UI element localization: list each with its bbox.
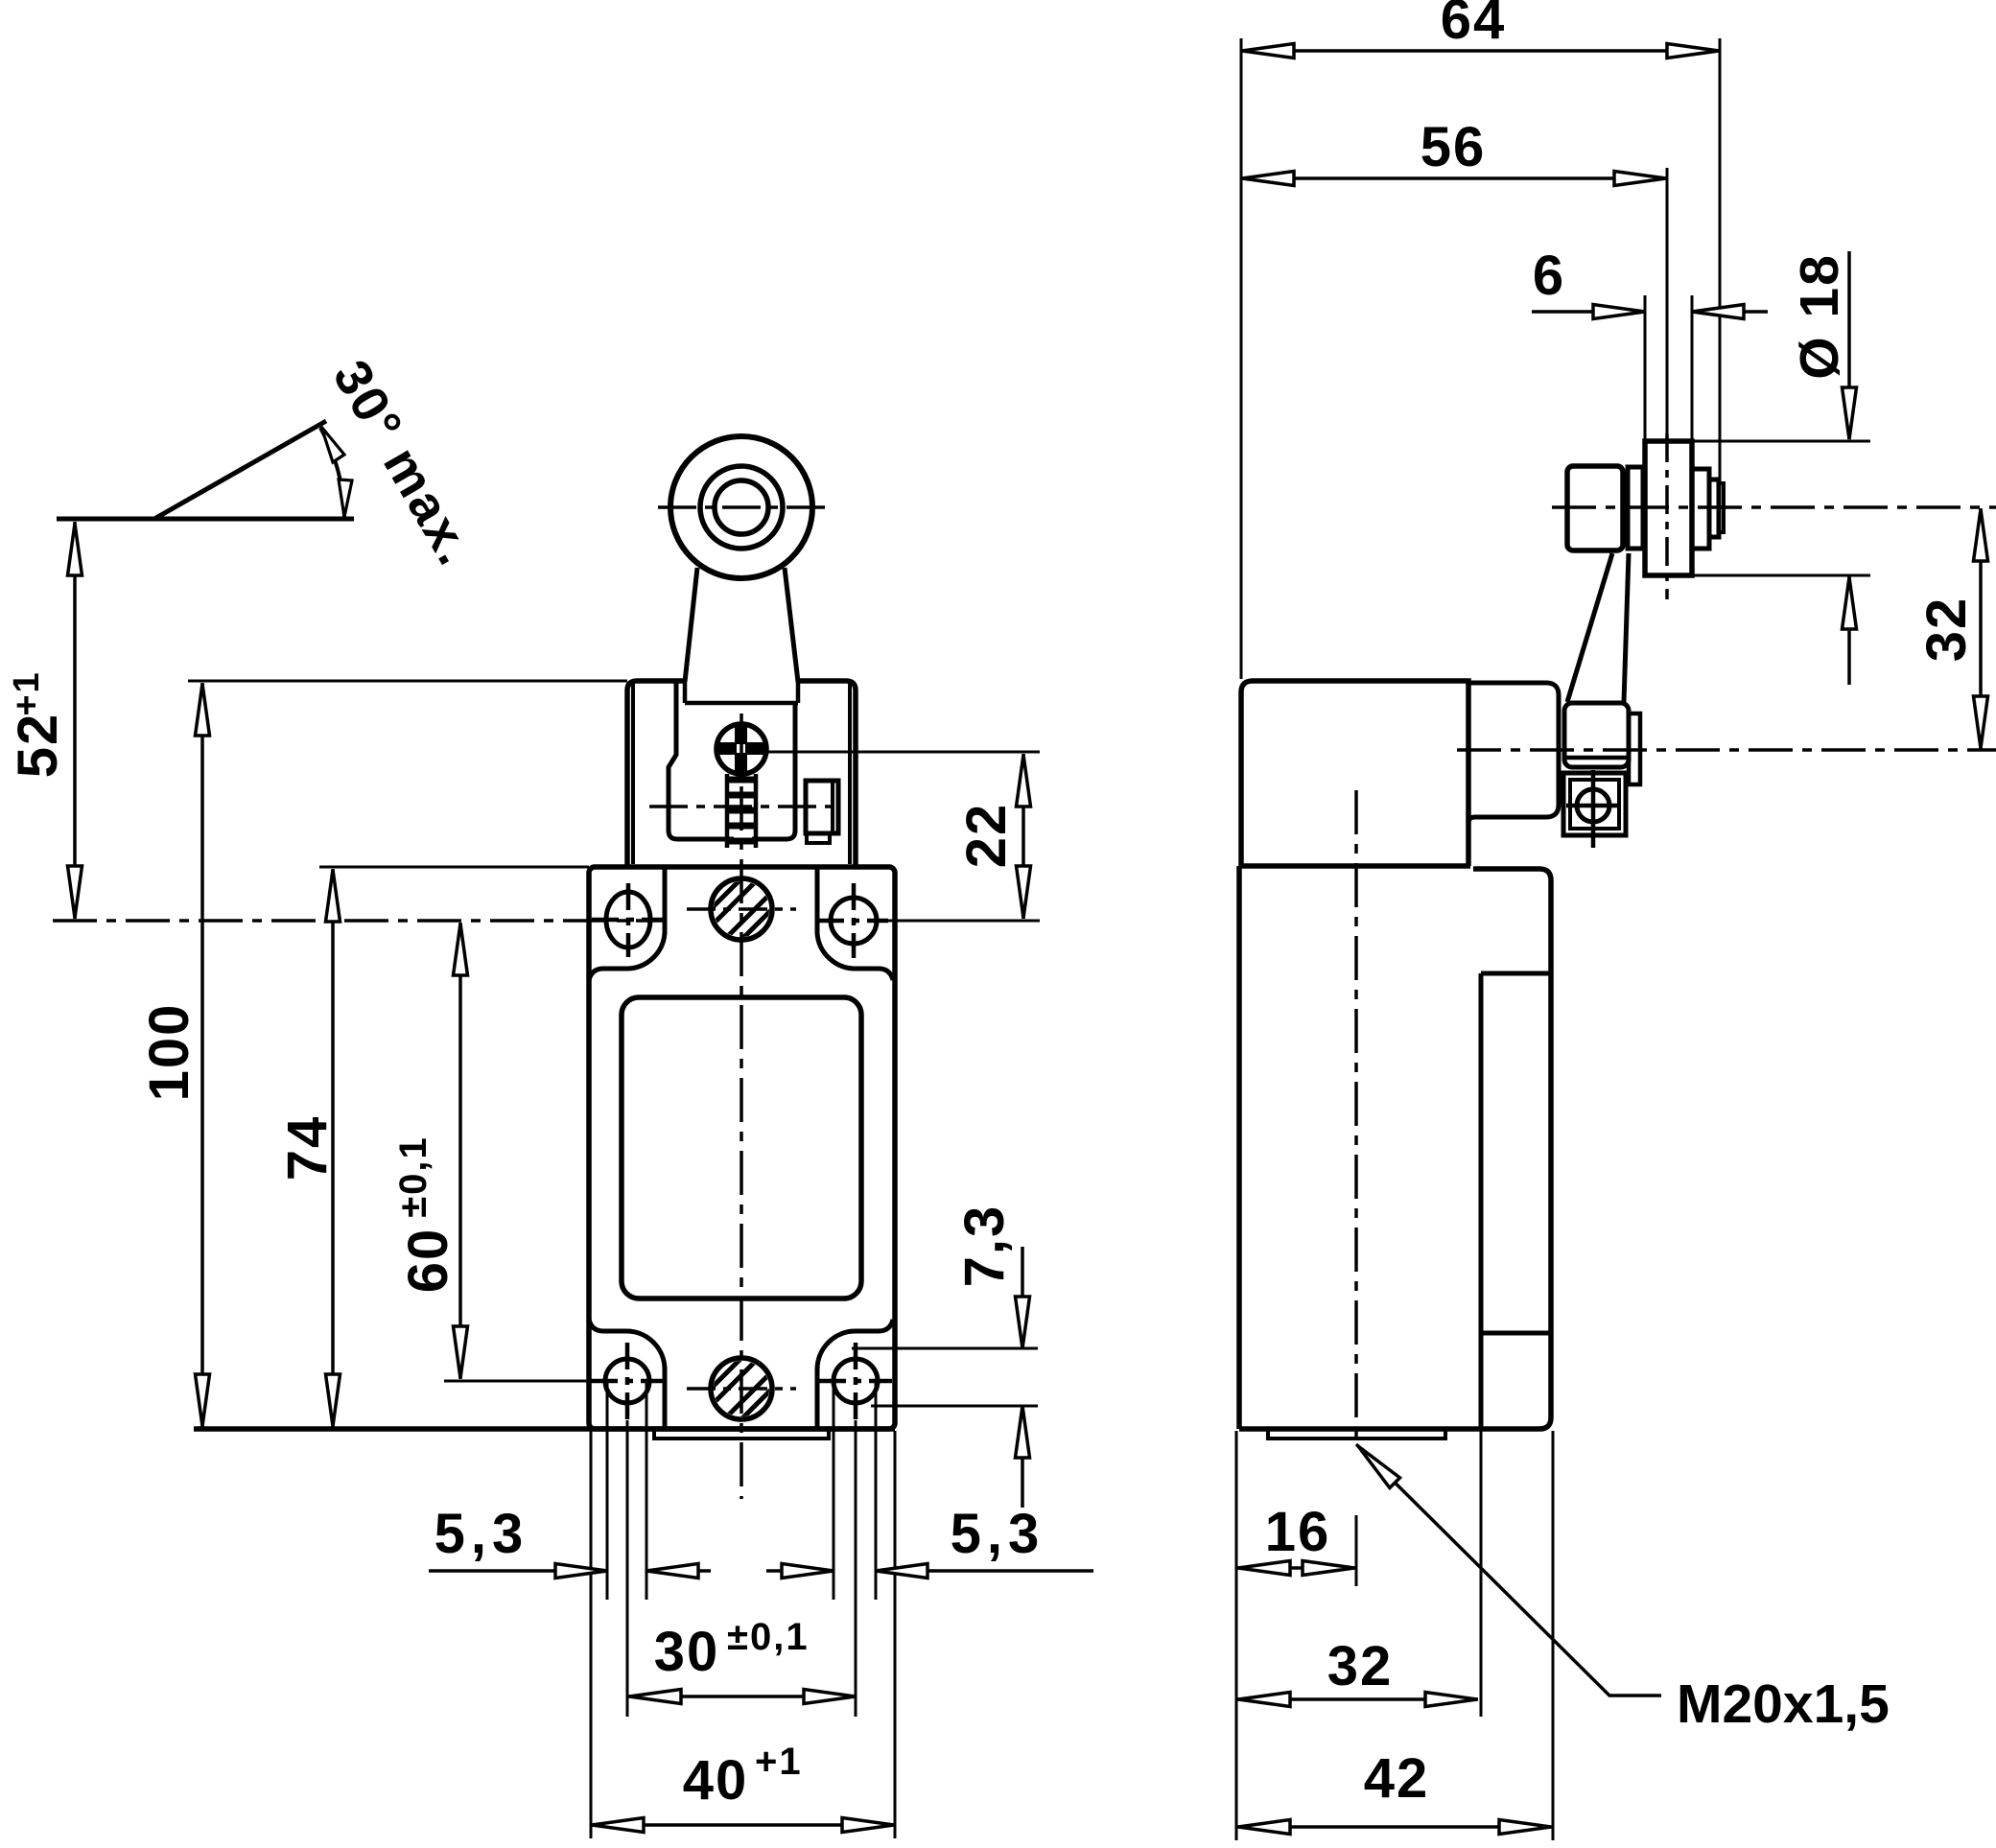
dim 5,3 left line a bbox=[429, 1569, 607, 1573]
30deg arc bbox=[320, 428, 344, 519]
ext line body top left (74) bbox=[319, 866, 589, 869]
clamp block lower step bbox=[807, 833, 830, 843]
clamp screw cross h bbox=[717, 742, 765, 755]
ext line seam (32) bbox=[1480, 1431, 1483, 1717]
dim 100 line bbox=[200, 683, 204, 1427]
head clamp centerline bbox=[649, 805, 841, 808]
dim 64 arrow left bbox=[1242, 44, 1294, 58]
dim 56 line bbox=[1241, 176, 1667, 180]
30deg arc arrow upper bbox=[321, 427, 344, 462]
body bottom edge + ext (100/74) bbox=[194, 1426, 895, 1432]
svg-text:30: 30 bbox=[654, 1621, 720, 1683]
dim 52 arrow up bbox=[68, 524, 82, 575]
ext line hole right (22) bbox=[888, 920, 1040, 923]
ext line 64 right bbox=[1719, 38, 1722, 480]
dim 32 side arrow up bbox=[1974, 509, 1988, 561]
dim 100 arrow up bbox=[196, 684, 210, 736]
svg-text:56: 56 bbox=[1421, 116, 1487, 178]
roller axis centerline bbox=[1552, 505, 1996, 509]
dim 42 arrow left bbox=[1238, 1820, 1290, 1835]
svg-text:74: 74 bbox=[276, 1115, 339, 1181]
dim 52 ext dash-dot at hole line bbox=[53, 919, 664, 923]
ext line 56 right bbox=[1666, 168, 1669, 433]
dim 32 side line bbox=[1979, 508, 1983, 749]
svg-text:+1: +1 bbox=[755, 1741, 803, 1783]
head inner right wall bbox=[848, 684, 852, 864]
ext line hole bottom left (60) bbox=[444, 1380, 589, 1383]
dim 16 line bbox=[1236, 1566, 1356, 1570]
head inner left wall bbox=[631, 684, 635, 864]
svg-text:32: 32 bbox=[1915, 597, 1978, 663]
ear contour top-right bbox=[817, 867, 893, 980]
svg-text:6: 6 bbox=[1533, 245, 1565, 307]
threaded shaft right edge bbox=[754, 774, 759, 848]
ext line hole edge 674 bbox=[646, 1383, 648, 1600]
dim 5,3 right line bbox=[876, 1569, 1093, 1573]
clamp block right bbox=[806, 781, 838, 833]
dim 60 arrow down bbox=[454, 1326, 468, 1378]
svg-text:Ø 18: Ø 18 bbox=[1789, 253, 1850, 380]
clamp screw center notch bbox=[737, 744, 745, 753]
ext line hole edge 869 bbox=[833, 1383, 835, 1600]
M20 leader arrow bbox=[1358, 1446, 1400, 1488]
body step line lower (side) bbox=[1481, 1331, 1551, 1336]
dim 6 arrow right bbox=[1593, 305, 1645, 319]
ext line body left lower (16/32/42) bbox=[1235, 1431, 1238, 1840]
dim 5,3 mid segment bbox=[766, 1569, 834, 1573]
svg-text:7,3: 7,3 bbox=[953, 1205, 1016, 1288]
roller rect (side) bbox=[1645, 441, 1692, 575]
pivot crosshair h bbox=[1566, 804, 1621, 808]
roller cap bbox=[1719, 483, 1724, 532]
dim 30 arrow right bbox=[804, 1690, 856, 1704]
dim 60 arrow up bbox=[454, 924, 468, 975]
lever arm left edge (front) bbox=[685, 568, 697, 682]
cover screw bottom crosshair bbox=[687, 1387, 796, 1391]
ext line body right lower (42) bbox=[1552, 1431, 1555, 1840]
pivot plate (side) bbox=[1629, 713, 1640, 784]
M20 leader line bbox=[1356, 1444, 1661, 1696]
dim 64 line bbox=[1241, 49, 1720, 53]
dim dia18 shaft lower bbox=[1847, 576, 1851, 685]
ext line ear top (7,3) bbox=[852, 1347, 1038, 1350]
ext line head screw (22) bbox=[767, 751, 1040, 754]
hub spacer plate bbox=[1628, 467, 1643, 549]
cover screw top crosshair bbox=[687, 907, 796, 911]
mounting hole top-left (slot) bbox=[606, 892, 650, 947]
roller mid circle bbox=[700, 466, 783, 549]
svg-text:±0,1: ±0,1 bbox=[727, 1616, 810, 1658]
lever slot bottom bbox=[685, 701, 798, 706]
svg-text:+1: +1 bbox=[7, 670, 47, 715]
hole bottom-right crosshair h bbox=[819, 1379, 892, 1384]
body seam vertical (side) bbox=[1479, 973, 1484, 1427]
ext line hole edge 633 bbox=[606, 1383, 609, 1600]
pivot boss inner line bbox=[1566, 756, 1627, 760]
head outline (front) bbox=[627, 681, 856, 866]
dim 32 bottom arrow left bbox=[1238, 1693, 1290, 1707]
M20 axis centerline bbox=[1354, 790, 1358, 1442]
thread rung 3 bbox=[727, 807, 756, 814]
ext line M20 axis (16) bbox=[1355, 1515, 1358, 1586]
dim dia18 arrow up bbox=[1843, 577, 1857, 629]
hole top-right crosshair v bbox=[852, 883, 857, 958]
svg-text:±0,1: ±0,1 bbox=[392, 1135, 434, 1218]
ext line 64 left bbox=[1240, 38, 1243, 679]
ext line hole center 892 (30) bbox=[855, 1420, 857, 1717]
thread rung 5 bbox=[727, 838, 756, 845]
dim 40 line bbox=[591, 1823, 895, 1827]
lever arm right edge (front) bbox=[785, 568, 798, 682]
pivot square outer bbox=[1563, 773, 1626, 835]
hole bottom-left crosshair v bbox=[625, 1343, 630, 1420]
dim 74 line bbox=[331, 869, 335, 1427]
pivot boss (side) bbox=[1564, 703, 1629, 767]
dim 22 arrow up bbox=[1017, 755, 1031, 807]
dim 56 arrow right bbox=[1614, 172, 1666, 186]
dim 7,3 line upper bbox=[1021, 1247, 1024, 1348]
svg-text:64: 64 bbox=[1441, 0, 1507, 51]
roller washer bbox=[1692, 469, 1709, 549]
dim 32 bottom line bbox=[1236, 1697, 1478, 1701]
svg-text:22: 22 bbox=[955, 803, 1018, 869]
dim 30 line bbox=[628, 1695, 857, 1698]
dim 56 arrow left bbox=[1242, 172, 1294, 186]
thread rung 1 bbox=[727, 777, 756, 784]
head rear block (side) bbox=[1468, 683, 1559, 823]
svg-text:40: 40 bbox=[683, 1749, 749, 1812]
lever slot right wall bbox=[796, 682, 801, 703]
hole top-left crosshair h bbox=[592, 918, 663, 923]
mounting hole bottom-left bbox=[605, 1359, 649, 1403]
lever slot left wall bbox=[683, 682, 688, 703]
lever hub (side) bbox=[1567, 466, 1623, 550]
body outline (front) bbox=[589, 867, 895, 1429]
dim 64 arrow right bbox=[1667, 44, 1719, 58]
dim 7,3 arrow down bbox=[1016, 1297, 1030, 1348]
thread rung 2 bbox=[727, 792, 756, 799]
hole bottom-right crosshair v bbox=[854, 1343, 858, 1420]
dim 22 arrow down bbox=[1017, 866, 1031, 918]
roller nut bbox=[1709, 480, 1719, 537]
svg-text:5,3: 5,3 bbox=[951, 1503, 1045, 1565]
ext line hole tangent (7,3) bbox=[871, 1405, 1038, 1408]
dim 16 arrow right bbox=[1303, 1561, 1354, 1576]
dim 40 arrow right bbox=[842, 1818, 894, 1833]
pivot square inner bbox=[1570, 780, 1619, 829]
dim 74 arrow down bbox=[326, 1374, 340, 1426]
dim 5,3 left arrow left bbox=[646, 1564, 698, 1579]
clamp screw circle bbox=[716, 724, 766, 774]
pivot screw circle bbox=[1577, 789, 1609, 822]
roller centerline horizontal bbox=[658, 505, 825, 509]
main vertical centerline (front) bbox=[740, 713, 743, 1499]
bottom lip (side) bbox=[1268, 1431, 1445, 1439]
dim 5,3 right arrow right bbox=[782, 1564, 834, 1579]
dim 52 line bbox=[73, 522, 77, 919]
clamp block inner line bbox=[831, 781, 834, 833]
ear contour bottom-left bbox=[589, 1320, 665, 1427]
ext line dia18 bottom bbox=[1652, 574, 1870, 577]
svg-text:60: 60 bbox=[397, 1228, 459, 1294]
dim 32 bottom arrow right bbox=[1425, 1693, 1477, 1707]
dim 60 line bbox=[458, 923, 462, 1379]
roller outer circle (front) bbox=[670, 436, 812, 578]
head bottom / body top (side) bbox=[1239, 863, 1470, 869]
hole top-right crosshair h bbox=[817, 919, 888, 924]
dim 40 arrow left bbox=[592, 1818, 644, 1833]
lever max-angle datum line bbox=[57, 517, 354, 522]
head outline (side) bbox=[1241, 681, 1468, 866]
svg-text:42: 42 bbox=[1364, 1747, 1430, 1810]
dim dia18 shaft upper bbox=[1847, 251, 1851, 439]
dim 6 shaft left bbox=[1532, 310, 1645, 314]
svg-text:M20x1,5: M20x1,5 bbox=[1677, 1673, 1890, 1735]
threaded shaft left edge bbox=[725, 774, 730, 848]
mounting hole top-right bbox=[831, 898, 877, 944]
dim 6 arrow left bbox=[1692, 305, 1744, 319]
ext line 6 right bbox=[1691, 295, 1694, 441]
clamp screw cross v bbox=[735, 725, 747, 773]
bottom lip (front) bbox=[654, 1431, 829, 1439]
pivot axis centerline bbox=[1457, 748, 1996, 752]
roller inner circle bbox=[715, 480, 768, 534]
dim 32 side arrow down bbox=[1974, 696, 1988, 748]
mounting hole bottom-right bbox=[834, 1359, 878, 1403]
dim 6 shaft right bbox=[1692, 310, 1768, 314]
lever arm left edge (side) bbox=[1567, 553, 1612, 702]
ext line dia18 top bbox=[1648, 440, 1870, 443]
ext line head top (52/100) bbox=[188, 680, 627, 683]
lever 30deg angled line bbox=[154, 421, 326, 519]
ext line hole edge 913 bbox=[875, 1383, 878, 1600]
roller vertical centerline bbox=[1665, 433, 1669, 599]
dim 5,3 left line b bbox=[646, 1569, 711, 1573]
dim 100 arrow down bbox=[196, 1374, 210, 1426]
body step line upper (side) bbox=[1481, 971, 1551, 976]
dim 42 arrow right bbox=[1499, 1820, 1551, 1835]
dim 74 arrow up bbox=[326, 870, 340, 922]
dim 5,3 left arrow right bbox=[555, 1564, 607, 1579]
hole top-left crosshair v bbox=[626, 883, 631, 957]
dim 16 arrow left bbox=[1238, 1561, 1290, 1576]
30deg arc arrow lower bbox=[339, 480, 352, 517]
svg-text:5,3: 5,3 bbox=[434, 1503, 529, 1565]
pivot crosshair v bbox=[1591, 770, 1596, 848]
svg-text:16: 16 bbox=[1265, 1501, 1331, 1563]
clamp housing contour bbox=[669, 683, 795, 839]
dim 52 arrow down bbox=[68, 866, 82, 918]
cover window bbox=[622, 997, 861, 1298]
dim 22 line bbox=[1021, 754, 1025, 919]
dim 7,3 line lower bbox=[1021, 1406, 1024, 1508]
dim dia18 arrow down bbox=[1843, 387, 1857, 439]
hole bottom-left crosshair h bbox=[591, 1379, 664, 1384]
ear contour top-left bbox=[589, 867, 665, 980]
cover screw top (hatched) bbox=[711, 878, 772, 940]
dim 5,3 right arrow left bbox=[876, 1564, 928, 1579]
ear contour bottom-right bbox=[817, 1320, 893, 1427]
ext line 6 left bbox=[1644, 295, 1647, 441]
ext line body right (40) bbox=[894, 1431, 897, 1838]
dim 7,3 arrow up bbox=[1016, 1406, 1030, 1458]
ext line hole center 654 (30) bbox=[626, 1420, 629, 1717]
ext line body left (40) bbox=[590, 1431, 593, 1838]
cover screw bottom (hatched) bbox=[711, 1358, 772, 1419]
svg-text:52: 52 bbox=[7, 713, 69, 779]
dim 30 arrow left bbox=[629, 1690, 681, 1704]
dim 42 line bbox=[1236, 1825, 1553, 1829]
lever arm right edge (side) bbox=[1624, 553, 1629, 702]
body outline (side) bbox=[1239, 866, 1551, 1429]
svg-text:32: 32 bbox=[1327, 1635, 1394, 1697]
thread rung 4 bbox=[727, 823, 756, 830]
svg-text:100: 100 bbox=[138, 1003, 200, 1102]
